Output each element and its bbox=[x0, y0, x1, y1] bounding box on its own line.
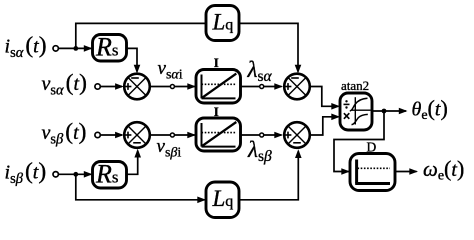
wire i_s_alpha input to Rs1 bbox=[58, 47, 91, 49]
summing junction S1 bbox=[124, 74, 150, 100]
wire S2 to integrator I2 bbox=[151, 134, 195, 136]
wire I2 to S4 bbox=[241, 134, 282, 136]
svg-text:ωe(t): ωe(t) bbox=[423, 156, 464, 184]
atan2 block bbox=[340, 93, 372, 130]
svg-text:θe(t): θe(t) bbox=[412, 96, 448, 124]
wire bottom feedback beta bbox=[76, 174, 205, 200]
wire S1 to integrator I1 bbox=[151, 86, 195, 88]
derivative block D bbox=[350, 154, 395, 191]
wire D to omega output bbox=[395, 171, 417, 173]
wire Lq-top output to S3 bbox=[239, 23, 298, 71]
wire v_s_beta to S2 bbox=[100, 134, 122, 136]
node lambda_s_beta bbox=[260, 133, 264, 137]
node v_s_alpha_i bbox=[170, 85, 174, 89]
inductor block Lq top bbox=[206, 6, 239, 41]
node v_s_beta_i bbox=[170, 133, 174, 137]
wire Lq bottom output to S4 bbox=[239, 151, 298, 200]
resistor block Rs1 bbox=[93, 33, 127, 62]
svg-text:atan2: atan2 bbox=[341, 78, 369, 93]
integrator block I2 bbox=[196, 118, 241, 151]
terminal i_s_beta bbox=[53, 172, 58, 177]
terminal i_s_alpha bbox=[53, 46, 58, 51]
resistor block Rs2 bbox=[93, 159, 127, 188]
inductor block Lq bottom bbox=[206, 182, 239, 218]
wire Rs1 output to S1 bbox=[127, 48, 138, 71]
wire S4 to atan2 input 2 bbox=[311, 117, 339, 135]
wire I1 to S3 bbox=[241, 86, 282, 88]
node junction theta bbox=[382, 109, 387, 114]
summing junction S4 bbox=[284, 122, 310, 148]
terminal v_s_beta bbox=[95, 132, 100, 137]
node lambda_s_alpha bbox=[260, 85, 264, 89]
node junction i_s_alpha bbox=[73, 46, 78, 51]
wire S3 to atan2 input 1 bbox=[311, 87, 339, 107]
wire Rs2 output to S2 bbox=[127, 151, 138, 175]
summing junction S3 bbox=[284, 74, 310, 100]
node junction i_s_beta bbox=[73, 172, 78, 177]
wire atan2 to theta output bbox=[372, 110, 406, 112]
summing junction S2 bbox=[124, 122, 150, 148]
svg-text:I: I bbox=[214, 55, 219, 70]
wire theta branch to D bbox=[334, 111, 384, 172]
integrator block I1 bbox=[196, 70, 241, 104]
wire top feedback alpha bbox=[76, 23, 206, 48]
terminal v_s_alpha bbox=[95, 84, 100, 89]
wire v_s_alpha to S1 bbox=[100, 86, 122, 88]
wire i_s_beta to Rs2 bbox=[58, 173, 91, 175]
